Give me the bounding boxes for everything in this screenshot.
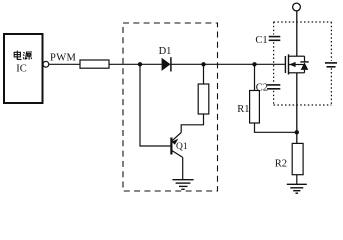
power IC box U (电源 IC) [4,34,43,103]
wire R1 bottom to node D [255,123,297,132]
wire terminal to drain [296,11,298,56]
svg-text:D1: D1 [159,46,172,57]
wire node to R3 [49,63,80,65]
wire D1 to MOSFET gate [172,63,286,65]
svg-text:C2: C2 [256,82,268,93]
glyph 源 [23,52,32,60]
svg-text:PWM: PWM [50,52,77,63]
svg-text:R2: R2 [275,159,287,170]
glyph 电 [14,51,21,60]
svg-text:IC: IC [16,64,27,75]
capacitor Cds (drain-source parasitic, right edge) [325,63,337,67]
resistor R2 [292,143,303,174]
wire node C down to R1 [254,64,256,90]
ground (under Q1) [172,180,193,190]
wire source down to node D and R2 [296,73,298,144]
wire R2 to ground [296,175,298,185]
dashed box (driver accelerator block) [123,23,218,191]
capacitor C2 (gate-source parasitic) [267,85,280,89]
wire node A down to Q1 base [140,64,171,146]
capacitor C1 (gate-drain parasitic) [269,37,281,41]
resistor R (horizontal, gate series) [80,60,109,68]
node VCC terminal circle (top) [293,3,301,11]
dotted box (parasitic capacitance boundary) [274,22,332,105]
node PWM terminal circle [43,61,49,67]
wire node B down to R4 [203,64,205,84]
svg-text:Q1: Q1 [176,142,188,152]
resistor R1 [250,91,260,124]
wire R to node A [109,63,162,65]
node C junction (R1 tap) [252,62,256,66]
ground (under R2) [287,184,307,193]
body diode of Q2 [300,61,308,63]
wire R4 bottom to Q1 emitter [181,114,203,133]
diode D1 [162,57,171,71]
svg-text:C1: C1 [255,35,267,46]
node D junction [295,130,299,134]
node B junction (pull-down resistor tap) [201,62,205,66]
node A junction [138,62,142,66]
mosfet Q2 (N-channel with body diode) [285,54,308,74]
svg-text:R1: R1 [237,104,249,115]
transistor Q1 (PNP) [171,133,182,180]
resistor R4 (vertical, in dashed box) [198,84,209,114]
